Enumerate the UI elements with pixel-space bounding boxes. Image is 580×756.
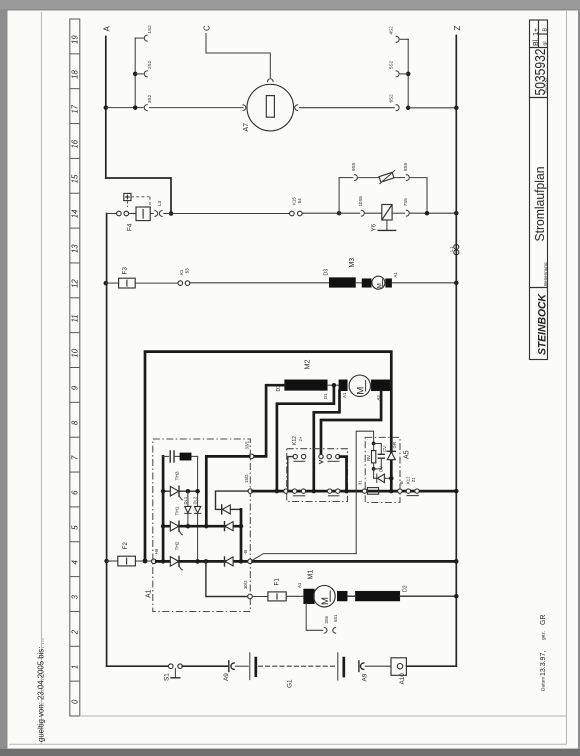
- junction Z bus / M1 row: [454, 594, 459, 599]
- wire 10S5 to Y6 coil: [365, 212, 382, 214]
- svg-text:RV: RV: [366, 455, 371, 461]
- junction Z bus / bottom row: [454, 489, 459, 494]
- svg-text:A1: A1: [146, 589, 153, 598]
- svg-text:STEINBOCK: STEINBOCK: [537, 293, 549, 355]
- wire Z bus bottom corner to A10: [406, 665, 456, 667]
- fuse F3 body: [119, 278, 136, 288]
- svg-text:DV: DV: [379, 466, 384, 472]
- connector pin 5S2: [396, 71, 399, 77]
- svg-text:Y6: Y6: [371, 223, 378, 231]
- junction TH2 row nodes: [161, 559, 166, 564]
- wire -B to Z bus: [253, 560, 457, 563]
- junction bottom row / thick leg: [389, 489, 394, 494]
- svg-text:L1: L1: [449, 246, 454, 252]
- junction Z bus / -B row: [454, 559, 459, 564]
- svg-text:M3: M3: [349, 258, 356, 268]
- svg-text:15/2: 15/2: [244, 474, 249, 483]
- junction Z bus / A7 row: [454, 106, 459, 111]
- choke D2: [355, 591, 399, 601]
- svg-text:-B: -B: [399, 481, 404, 485]
- svg-text:A10: A10: [399, 673, 406, 685]
- svg-text:7: 7: [71, 455, 80, 460]
- svg-text:+B: +B: [154, 549, 159, 555]
- terminal hook A7 right: [295, 105, 298, 111]
- svg-text:6S2: 6S2: [389, 94, 394, 103]
- svg-text:1: 1: [71, 665, 80, 669]
- terminal hook A7 left: [243, 105, 246, 111]
- contact marks top row: [294, 460, 305, 462]
- module A1 boundary: [153, 439, 251, 612]
- junction GR leg / DV: [389, 476, 394, 481]
- wire A7 right to connector 6S2: [300, 107, 395, 109]
- wire connector column S2 link: [134, 38, 136, 108]
- junction Z bus / M3 row: [454, 281, 459, 286]
- svg-text:33/1: 33/1: [245, 440, 250, 449]
- brush block M1 left: [304, 589, 315, 604]
- diode DL2: [194, 512, 200, 514]
- terminal 30/2 on A1 module: [248, 594, 253, 599]
- svg-text:2: 2: [71, 629, 80, 635]
- svg-text:K15: K15: [291, 197, 296, 205]
- wire bottom contact row: [253, 490, 457, 493]
- wire F2 to +B node: [135, 560, 151, 562]
- wire M3 to Z bus: [392, 282, 457, 284]
- svg-text:F4: F4: [127, 223, 134, 231]
- svg-text:16: 16: [71, 139, 80, 148]
- junction thick feed riser: [143, 559, 148, 564]
- junction F4 row / branch from A-bus: [169, 211, 174, 216]
- junction TH3 row / DL1: [186, 489, 191, 494]
- wire terminal 30/2 branch: [206, 561, 248, 596]
- svg-text:13: 13: [71, 244, 80, 253]
- junction TH1 row left: [161, 524, 166, 529]
- snubber resistor: [180, 453, 191, 460]
- connector A9 left: [228, 661, 230, 672]
- brush block M1 right: [337, 591, 347, 601]
- contact top row circles: [293, 454, 297, 458]
- inline connector L1 on Z bus: [454, 244, 459, 249]
- solenoid valve coil Y6: [382, 205, 392, 221]
- svg-text:B: B: [543, 28, 549, 32]
- wire stub to connector 1S2: [135, 37, 143, 39]
- wire 8S5 down to lower branch: [410, 178, 427, 214]
- svg-text:6: 6: [71, 490, 80, 495]
- wire A-bus lower vertical (left supply bus): [106, 214, 108, 667]
- svg-text:K12: K12: [406, 476, 411, 484]
- contact marks bottom row: [293, 495, 304, 497]
- svg-text:GR: GR: [392, 442, 397, 449]
- wire L3 to junction: [164, 213, 171, 215]
- svg-text:M1: M1: [308, 570, 315, 580]
- junction TH3 row left: [161, 489, 166, 494]
- wire riser to TH2 row: [240, 509, 243, 561]
- svg-text:15: 15: [71, 174, 80, 183]
- connector pair 3S6 5S1: [324, 628, 327, 634]
- svg-text:Benennung: Benennung: [543, 262, 548, 286]
- svg-text:A1: A1: [393, 272, 398, 278]
- svg-text:Z1: Z1: [411, 477, 416, 483]
- wire thick feed riser / top / right leg: [145, 352, 391, 561]
- junction TH1 / DL1: [186, 524, 191, 529]
- svg-text:F2: F2: [122, 542, 129, 550]
- wire Y6 coil to 7S5: [392, 212, 405, 214]
- wire to 9S5: [339, 177, 353, 179]
- svg-text:Z: Z: [453, 26, 462, 31]
- thyristor TH3: [170, 486, 178, 496]
- wire clip to F4: [129, 213, 137, 215]
- junction bottom row / wire Q: [312, 489, 317, 494]
- connector pin 4S2: [396, 36, 399, 42]
- junction A5 top node: [372, 442, 376, 446]
- wire M1 sense branch to 3S6/5S1: [306, 604, 322, 631]
- wire snubber top with capacitor and resistor: [163, 455, 169, 457]
- svg-text:M: M: [320, 597, 331, 605]
- connector pin 1S2: [144, 35, 147, 41]
- brush block M2 left: [339, 380, 347, 391]
- battery G1 right cell: [337, 653, 339, 680]
- wire gate diode to riser: [231, 508, 241, 510]
- junction Y6 right: [425, 211, 430, 216]
- wire F4 row to connector K15/54: [171, 213, 290, 215]
- svg-text:D2: D2: [403, 585, 409, 592]
- svg-text:A5: A5: [404, 450, 411, 459]
- connector pin 10S5: [361, 210, 364, 216]
- wire to fuse F3: [106, 282, 119, 284]
- junction A5 mid node: [372, 467, 376, 471]
- svg-text:8: 8: [71, 420, 80, 425]
- svg-text:A7: A7: [243, 123, 250, 132]
- battery middle link (dashed): [258, 665, 336, 667]
- diode GR on thick leg: [387, 450, 395, 452]
- svg-text:5S1: 5S1: [333, 614, 338, 622]
- wire 6S2 to Z bus: [408, 107, 456, 109]
- svg-text:C: C: [203, 25, 212, 31]
- wire F4 row start: [107, 213, 117, 215]
- wire S2 right link column: [407, 39, 409, 108]
- wire sensor to 8S5: [395, 177, 405, 179]
- svg-text:D3: D3: [324, 269, 330, 276]
- junction right S2 link / row: [406, 106, 411, 111]
- wire terminal 33/1 to thyristor row TH1: [206, 456, 249, 526]
- wire M1 row to Z bus: [347, 595, 355, 597]
- svg-text:A1: A1: [342, 392, 347, 398]
- fuse clip circles F4: [117, 211, 122, 216]
- brush block M3 left: [362, 279, 371, 288]
- wire choke to brush block: [327, 384, 339, 386]
- svg-text:7S5: 7S5: [403, 198, 408, 207]
- svg-text:11: 11: [71, 314, 80, 322]
- svg-text:Sach-Nr: Sach-Nr: [544, 77, 549, 93]
- junction bottom row / wire B: [275, 489, 280, 494]
- connector A9 right: [361, 663, 364, 669]
- junction A-bus / A7 row: [104, 105, 109, 110]
- svg-text:53: 53: [185, 268, 190, 273]
- wire F4 to L3: [150, 213, 153, 215]
- battery plug A10: [391, 658, 406, 676]
- svg-text:M: M: [355, 387, 366, 395]
- svg-text:2+: 2+: [298, 436, 303, 441]
- diode DL1: [187, 491, 189, 526]
- wire stub 5S2: [400, 73, 408, 75]
- terminal on A5 right edge: [398, 489, 402, 493]
- key switch S1: [169, 664, 174, 669]
- svg-text:31: 31: [358, 480, 363, 485]
- svg-text:K1: K1: [179, 269, 184, 275]
- wire thyristor TH2 row: [156, 560, 248, 563]
- svg-text:5: 5: [71, 525, 80, 530]
- wire thyristor TH1 row: [163, 525, 241, 528]
- svg-text:K12: K12: [292, 436, 298, 445]
- fuse F4 body: [136, 207, 150, 221]
- terminal 15/2 on A1 module: [248, 489, 253, 494]
- svg-text:17: 17: [71, 104, 80, 113]
- wire 9S5 to temperature sensor: [358, 177, 378, 179]
- motor M3: [372, 276, 385, 289]
- svg-text:10S5: 10S5: [358, 196, 363, 207]
- choke D3 (M3 circuit): [329, 278, 355, 288]
- wire A-bus jog to F4 row: [106, 178, 171, 214]
- wire S1 to connector A9 left: [182, 665, 227, 667]
- junction right S2 link / 5S2: [406, 72, 411, 77]
- brush block M3 right: [386, 279, 392, 288]
- junction A-bus / F2 row: [104, 559, 109, 564]
- wire A9 to battery plug A10: [365, 665, 391, 667]
- junction TH3 row / DL2: [195, 489, 200, 494]
- svg-text:L3: L3: [157, 200, 162, 206]
- gate diode: [221, 505, 223, 514]
- terminal +B on A1 module: [152, 559, 157, 564]
- svg-text:A1: A1: [297, 582, 302, 588]
- svg-text:F3: F3: [122, 267, 129, 275]
- connector pin 9S5: [355, 175, 358, 181]
- svg-text:1S2: 1S2: [147, 25, 152, 34]
- svg-text:18: 18: [71, 69, 80, 78]
- svg-text:0: 0: [71, 699, 80, 704]
- wire stub 4S2: [400, 38, 408, 40]
- svg-text:A9: A9: [223, 673, 230, 681]
- wire M2-A2 feed down-left to contact (wire P): [321, 391, 381, 454]
- svg-text:F1: F1: [274, 578, 281, 586]
- svg-text:4S2: 4S2: [389, 26, 394, 35]
- svg-text:GR: GR: [540, 615, 547, 626]
- junction Z bus / Y6 row: [454, 211, 459, 216]
- wire C branch down to A7 top terminal: [206, 34, 270, 78]
- svg-text:10: 10: [71, 348, 80, 357]
- svg-text:TH3: TH3: [174, 471, 180, 480]
- svg-text:3S6: 3S6: [324, 615, 329, 623]
- connector pair K12 Z1: [406, 489, 410, 493]
- diode on TH2 row: [224, 557, 226, 566]
- freewheel diode on TH1 row: [224, 522, 226, 531]
- thyristor TH1: [170, 521, 178, 531]
- svg-text:TH1: TH1: [174, 506, 180, 515]
- svg-text:-B: -B: [243, 550, 248, 555]
- svg-text:DL2: DL2: [193, 496, 198, 504]
- wire bottom row from A-bus: [107, 665, 169, 667]
- junction A-bus / F3 row: [104, 281, 109, 286]
- choke D3 (M2 circuit): [285, 380, 328, 391]
- svg-text:2S2: 2S2: [147, 60, 152, 69]
- thyristor TH2: [170, 557, 178, 567]
- junction Y6 branch: [337, 211, 342, 216]
- svg-text:3: 3: [71, 594, 80, 599]
- junction S2 link / A7 row: [133, 105, 138, 110]
- wire choke D3 left terminal to terminal 33/1: [254, 385, 285, 456]
- terminal hook A7 top: [268, 79, 274, 82]
- svg-text:S1: S1: [164, 673, 171, 681]
- svg-text:TH2: TH2: [174, 541, 180, 550]
- wire A-bus to fuse F2: [107, 560, 118, 562]
- wire M2-A1 down-left to contact through-wire (wire Q): [314, 391, 340, 491]
- terminal -B on A1 module: [248, 559, 253, 564]
- wire A-bus vertical (top): [105, 37, 107, 179]
- capacitor CV: [374, 444, 382, 455]
- svg-text:Bl. 1+: Bl. 1+: [533, 28, 540, 46]
- temperature sensor symbol (slanted box with arrow): [379, 172, 394, 182]
- svg-text:12: 12: [71, 279, 80, 288]
- module A5 boundary: [365, 437, 400, 502]
- svg-text:gueltig von: 23.04.2005 bi: gueltig von: 23.04.2005 bis: ...: [37, 638, 46, 742]
- svg-text:Stromlaufplan: Stromlaufplan: [532, 167, 547, 242]
- wire 7S5 to Z bus: [410, 212, 456, 214]
- svg-text:9: 9: [71, 385, 80, 390]
- resistor RV: [373, 444, 375, 451]
- wire snubber right leg / DL2 branch: [197, 456, 199, 561]
- svg-text:DL1: DL1: [183, 496, 188, 504]
- motor M2: [349, 375, 370, 396]
- wire K15/54 to Y6 junction: [302, 212, 339, 214]
- wire 30/2 to fuse F1: [252, 596, 268, 598]
- svg-text:5S2: 5S2: [389, 60, 394, 69]
- horn A7 body: [247, 84, 294, 131]
- svg-text:G1: G1: [287, 679, 294, 688]
- thermal trip aux symbol above F4: [124, 193, 131, 200]
- fuse F1 body: [268, 592, 286, 601]
- motor M1: [314, 585, 336, 607]
- wire A9 to battery G1: [235, 665, 248, 667]
- svg-text:13.3.97,: 13.3.97,: [540, 651, 547, 676]
- connector pin 3S2: [144, 105, 147, 111]
- contact bottom row circles: [284, 489, 288, 493]
- svg-text:CV: CV: [382, 446, 387, 452]
- junction bottom row / right link: [344, 489, 349, 494]
- wire F1 to brush block: [286, 595, 303, 597]
- fuse F2 body: [118, 556, 136, 566]
- wire Y6 lower branch to 10S5: [339, 212, 360, 214]
- junction node D1: [332, 383, 337, 388]
- svg-text:gez.: gez.: [542, 631, 547, 640]
- diode DV: [374, 469, 377, 478]
- connector pin 8S5: [406, 175, 409, 181]
- svg-text:gl: gl: [543, 41, 549, 45]
- svg-text:54: 54: [297, 198, 302, 203]
- terminal on A5 left edge: [362, 489, 366, 493]
- wire contact left link: [288, 457, 293, 492]
- connector pin 6S2: [396, 105, 399, 111]
- wire D3 to motor M3: [356, 282, 363, 284]
- svg-text:8S5: 8S5: [403, 162, 408, 171]
- connector pin 2S2: [144, 71, 147, 77]
- relay contact block K12 boundary: [287, 449, 348, 502]
- wire Z bus vertical: [455, 36, 457, 667]
- terminal 33/1 on A1 module: [249, 454, 254, 459]
- svg-text:4: 4: [71, 560, 80, 565]
- svg-text:14: 14: [71, 209, 80, 218]
- junction riser / TH1 row: [239, 524, 244, 529]
- battery G1 left cell: [249, 653, 251, 680]
- svg-text:19: 19: [71, 35, 80, 44]
- snubber capacitor: [169, 451, 171, 462]
- wire stub to connector 2S2: [135, 73, 143, 75]
- wire snubber loop left leg: [162, 456, 165, 561]
- wire A7 row from A-bus to connector 1S2..3S2 column: [106, 107, 143, 109]
- svg-text:A9: A9: [362, 673, 369, 681]
- series resistor RF on bottom row: [367, 488, 378, 495]
- svg-text:A: A: [103, 26, 112, 32]
- svg-text:3S2: 3S2: [147, 94, 152, 103]
- junction TH1 / 33-1 riser: [204, 524, 209, 529]
- junction S2 link / 2S2: [133, 72, 138, 77]
- wire -B to A5 network (wire R): [252, 554, 356, 561]
- wire A7 row to horn A7: [150, 107, 244, 109]
- brush block M2 right: [371, 380, 390, 391]
- svg-text:D1: D1: [323, 393, 328, 399]
- wire thyristor TH3 row: [163, 490, 198, 492]
- wire Y6 upper branch riser: [338, 178, 340, 214]
- wire K1/53 to choke D3: [190, 282, 329, 284]
- connector pair K15 54: [290, 211, 295, 216]
- connector pin 7S5: [406, 210, 409, 216]
- inline connector L3: [155, 211, 158, 217]
- wire node D1 down to bottom contact row (wire B): [277, 385, 334, 491]
- wire F3 to connector K1/53: [135, 282, 178, 284]
- svg-text:30/2: 30/2: [243, 580, 248, 589]
- wire contact right link: [340, 457, 347, 492]
- connector pair K1 53: [178, 281, 183, 286]
- wire 15/2 gate loop with diode: [216, 491, 248, 509]
- svg-text:Datum: Datum: [541, 677, 547, 691]
- svg-text:9S5: 9S5: [351, 162, 356, 171]
- svg-text:M2: M2: [303, 360, 312, 370]
